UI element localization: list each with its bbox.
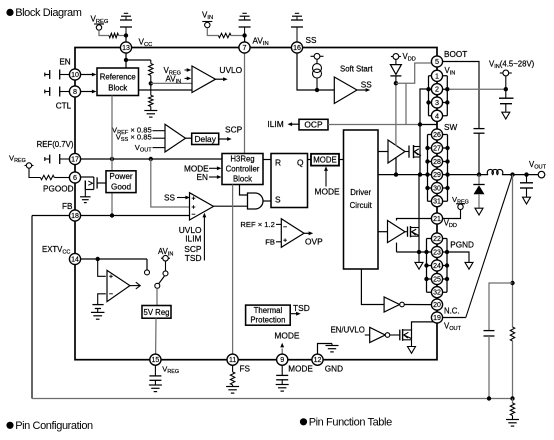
svg-text:N.C.: N.C. [444,306,460,315]
svg-text:TSD: TSD [185,253,202,263]
svg-text:18: 18 [71,213,79,220]
svg-text:Power: Power [109,172,132,181]
svg-text:UVLO: UVLO [219,65,242,75]
svg-text:REF × 1.2: REF × 1.2 [240,220,274,229]
svg-text:SS: SS [361,81,372,90]
svg-text:FB: FB [265,238,275,247]
svg-text:SCP: SCP [225,124,243,134]
svg-text:29: 29 [433,172,441,179]
svg-text:H3Reg: H3Reg [230,155,254,164]
svg-text:17: 17 [71,157,79,164]
svg-text:Reference: Reference [100,73,136,82]
svg-text:16: 16 [293,45,301,52]
svg-text:MODE: MODE [315,186,341,196]
svg-text:FS: FS [240,365,251,374]
svg-text:27: 27 [433,146,441,153]
svg-text:23: 23 [433,250,441,257]
svg-text:6: 6 [73,173,77,182]
svg-text:Circuit: Circuit [350,201,373,210]
svg-text:TSD: TSD [293,303,310,313]
svg-text:ILIM: ILIM [185,234,201,244]
svg-text:Driver: Driver [350,188,371,197]
svg-text:Protection: Protection [250,316,285,325]
svg-text:OVP: OVP [305,236,323,246]
svg-text:24: 24 [433,263,441,270]
svg-text:SW: SW [444,123,457,132]
svg-text:31: 31 [433,199,441,206]
svg-text:Block: Block [233,175,252,184]
svg-text:10: 10 [71,72,79,79]
svg-text:EN: EN [59,57,70,66]
svg-text:26: 26 [433,132,441,139]
svg-text:GND: GND [325,365,343,374]
svg-text:Delay: Delay [194,134,216,144]
svg-text:9: 9 [280,355,284,364]
svg-text:19: 19 [433,315,441,322]
svg-text:13: 13 [122,45,130,52]
svg-text:MODE: MODE [288,365,313,374]
svg-text:3: 3 [435,98,439,107]
svg-text:Q: Q [297,157,304,167]
svg-text:32: 32 [433,290,441,297]
svg-text:SS: SS [306,36,317,45]
svg-text:MODE: MODE [184,164,209,173]
svg-text:S: S [275,194,281,204]
svg-text:Thermal: Thermal [254,306,283,315]
svg-text:4: 4 [435,111,439,120]
svg-text:OCP: OCP [304,119,323,129]
svg-text:5V Reg: 5V Reg [143,308,169,317]
svg-text:MODE: MODE [313,156,336,165]
svg-text:CTL: CTL [56,102,72,111]
svg-text:15: 15 [152,357,160,364]
svg-text:Block: Block [108,84,127,93]
svg-text:FB: FB [62,202,73,211]
svg-text:12: 12 [314,357,322,364]
svg-text:8: 8 [73,87,77,96]
svg-text:PGND: PGND [450,240,474,249]
svg-text:R: R [275,157,281,167]
svg-text:20: 20 [433,302,441,309]
svg-text:EN/UVLO: EN/UVLO [331,326,365,335]
svg-text:5: 5 [435,57,439,66]
svg-text:EN: EN [197,173,208,182]
svg-text:Pin Configuration: Pin Configuration [15,420,93,432]
svg-text:21: 21 [433,216,441,223]
svg-text:1: 1 [435,71,439,80]
svg-text:PGOOD: PGOOD [43,184,74,193]
svg-text:Controller: Controller [226,165,260,174]
svg-text:Soft Start: Soft Start [340,64,373,73]
svg-text:Good: Good [111,183,131,192]
svg-text:11: 11 [229,357,236,364]
svg-text:28: 28 [433,159,441,166]
svg-text:REF(0.7V): REF(0.7V) [37,140,74,149]
svg-text:Block Diagram: Block Diagram [15,7,82,19]
svg-text:2: 2 [435,85,439,94]
svg-text:Pin Function Table: Pin Function Table [309,417,392,429]
svg-text:MODE: MODE [274,331,300,341]
svg-text:7: 7 [243,43,247,52]
svg-text:ILIM: ILIM [267,119,283,129]
svg-text:22: 22 [433,236,441,243]
svg-text:30: 30 [433,186,441,193]
svg-text:25: 25 [433,277,441,284]
svg-text:SS: SS [164,194,175,203]
svg-text:BOOT: BOOT [444,50,467,59]
svg-text:14: 14 [71,257,79,264]
